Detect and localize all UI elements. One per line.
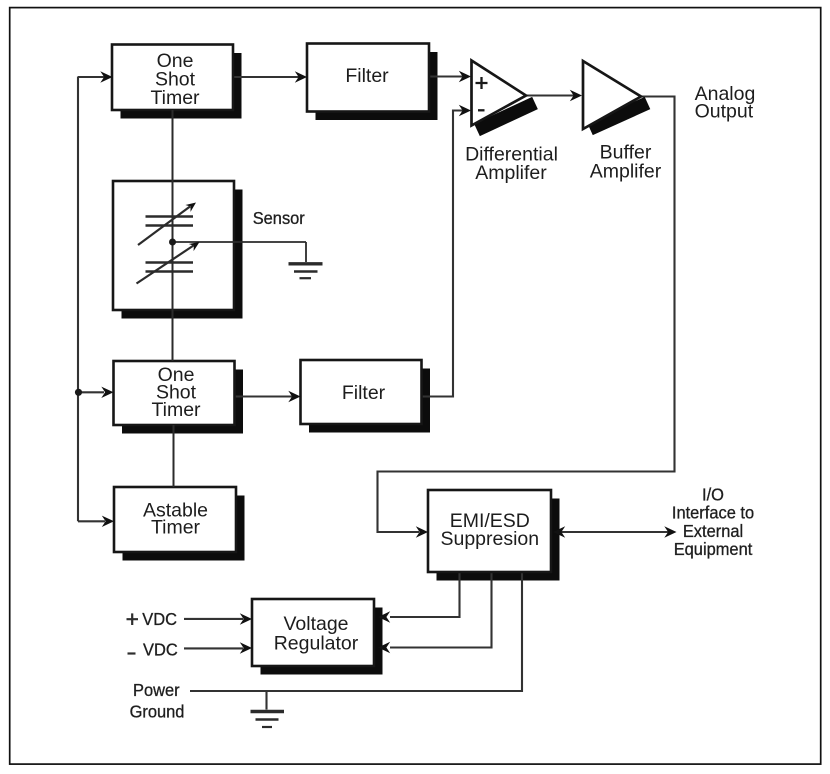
svg-text:External: External xyxy=(683,521,743,541)
svg-text:Amplifer: Amplifer xyxy=(475,162,547,184)
svg-text:Output: Output xyxy=(695,101,754,123)
svg-text:Interface to: Interface to xyxy=(672,503,754,523)
svg-text:VDC: VDC xyxy=(142,609,177,629)
svg-text:VDC: VDC xyxy=(143,640,178,660)
svg-text:Equipment: Equipment xyxy=(674,539,753,559)
svg-text:Timer: Timer xyxy=(151,399,201,421)
svg-text:I/O: I/O xyxy=(702,485,724,505)
svg-text:Timer: Timer xyxy=(150,87,200,109)
svg-text:Sensor: Sensor xyxy=(253,209,305,229)
svg-text:Ground: Ground xyxy=(130,702,185,722)
svg-text:Amplifer: Amplifer xyxy=(590,161,662,183)
svg-text:Filter: Filter xyxy=(345,65,389,87)
svg-text:Regulator: Regulator xyxy=(274,633,359,655)
svg-text:Power: Power xyxy=(133,680,180,700)
svg-text:Suppresion: Suppresion xyxy=(440,528,539,550)
svg-text:Timer: Timer xyxy=(151,517,201,539)
svg-text:Filter: Filter xyxy=(342,382,386,404)
